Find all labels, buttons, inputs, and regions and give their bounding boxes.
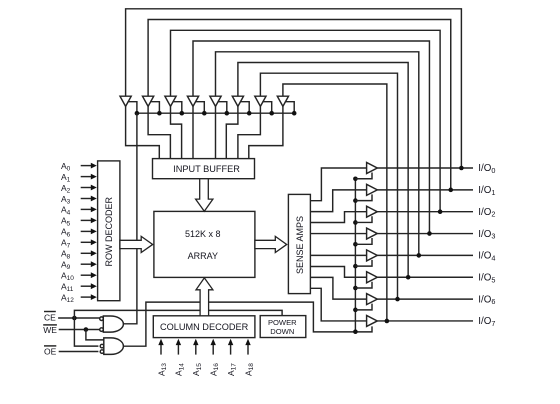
- wire tap triangle 5 to write-enable bus: [218, 102, 227, 114]
- wire loop I/O6 to input buffer triangle 7: [260, 73, 397, 299]
- wire sense amp output 1 to output triangle 1: [310, 168, 366, 201]
- gate G1 (CE/WE write logic): [100, 316, 124, 332]
- address input A4 label and arrow: [61, 205, 97, 217]
- input buffer triangle 4 (I/O3): [187, 96, 198, 106]
- wire tap triangle 1 to write-enable bus: [128, 102, 137, 114]
- wire triangle 5 output to INPUT BUFFER: [215, 106, 217, 158]
- wire sense amp output 5 to output triangle 5: [310, 254, 366, 256]
- svg-text:INPUT BUFFER: INPUT BUFFER: [173, 164, 240, 174]
- WE control wire with overline label: [43, 325, 57, 335]
- junction dot output-enable bus 6: [353, 286, 358, 291]
- junction dot I/O1: [448, 188, 453, 193]
- output triangle 6 (I/O5): [367, 272, 378, 283]
- input buffer triangle 8 (I/O7): [277, 96, 288, 106]
- output triangle 4 (I/O3): [367, 228, 378, 239]
- address input A12 label and arrow: [61, 292, 97, 304]
- address input A0 label and arrow: [61, 161, 97, 173]
- address input A7 label and arrow: [61, 238, 97, 250]
- address input A8 label and arrow: [61, 249, 97, 261]
- address input A2 label and arrow: [61, 183, 97, 195]
- wire tap triangle 4 to write-enable bus: [195, 102, 204, 114]
- OE control wire with overline label: [44, 346, 57, 356]
- wire tap output triangle 5 to output-enable bus: [355, 260, 372, 266]
- output triangle 1 (I/O0): [367, 163, 378, 174]
- CE control wire with overline label: [44, 312, 56, 323]
- wire WE input: [59, 329, 100, 331]
- wire tap output triangle 3 to output-enable bus: [355, 216, 372, 222]
- address input A11 label and arrow: [61, 282, 97, 294]
- address input A6 label and arrow: [61, 227, 97, 239]
- junction dot output-enable bus 4: [353, 242, 358, 247]
- address input A18 label and arrow: [243, 339, 255, 376]
- junction dot output-enable bus 1: [353, 176, 358, 181]
- output triangle 3 (I/O2): [367, 206, 378, 217]
- wire sense amp output 6 to output triangle 6: [310, 267, 366, 278]
- wire CE to gate G2: [74, 318, 98, 346]
- wire loop I/O4 to input buffer triangle 5: [216, 52, 419, 256]
- svg-text:WE: WE: [43, 325, 57, 335]
- wire loop I/O0 to input buffer triangle 1: [126, 9, 462, 168]
- output triangle 5 (I/O4): [367, 250, 378, 261]
- wire tap triangle 2 to write-enable bus: [150, 102, 159, 114]
- wire loop I/O1 to input buffer triangle 2: [148, 20, 451, 190]
- address input A10 label and arrow: [61, 271, 97, 283]
- junction dot I/O0: [459, 166, 464, 171]
- junction dot on write-enable bus 2: [157, 111, 162, 116]
- junction dot I/O5: [406, 275, 411, 280]
- junction dot I/O2: [438, 209, 443, 214]
- block SENSE AMPS: [288, 194, 310, 293]
- block COLUMN DECODER: [153, 316, 255, 338]
- address input A9 label and arrow: [61, 260, 97, 272]
- wire sense amp output 2 to output triangle 2: [310, 190, 366, 212]
- gate G2 (read/output-enable logic): [100, 338, 123, 355]
- wire tap triangle 7 to write-enable bus: [262, 102, 271, 114]
- input buffer triangle 2 (I/O1): [143, 96, 154, 106]
- wire triangle 7 output to INPUT BUFFER: [238, 106, 261, 158]
- input buffer triangle 6 (I/O5): [232, 96, 243, 106]
- junction dot on write-enable bus 8: [292, 111, 297, 116]
- wire tap triangle 3 to write-enable bus: [173, 102, 182, 114]
- wire I/O0 line: [377, 167, 473, 169]
- wire triangle 6 output to INPUT BUFFER: [226, 106, 238, 158]
- wire triangle 1 output to INPUT BUFFER: [126, 106, 160, 158]
- input buffer triangle 5 (I/O4): [210, 96, 221, 106]
- wire I/O6 line: [377, 298, 473, 300]
- wire tap output triangle 6 to output-enable bus: [355, 282, 372, 288]
- output-enable bus: [354, 179, 356, 332]
- svg-text:COLUMN DECODER: COLUMN DECODER: [160, 322, 249, 332]
- wire sense amp output 8 to output triangle 8: [310, 288, 366, 321]
- junction dot output-enable bus 7: [353, 308, 358, 313]
- wire CE to POWER DOWN: [74, 310, 282, 318]
- wire write-enable bus down to gate G1 output: [123, 113, 136, 324]
- wire I/O5 line: [377, 276, 473, 278]
- junction dot I/O4: [417, 253, 422, 258]
- wire I/O7 line: [377, 320, 473, 322]
- write-enable bus under input triangles: [137, 112, 294, 114]
- junction dot I/O7: [385, 319, 390, 324]
- junction dot output-enable bus 5: [353, 264, 358, 269]
- junction dot on write-enable bus 6: [247, 111, 252, 116]
- wire WE to gate G2: [86, 330, 104, 340]
- junction dot on write-enable bus 1: [135, 111, 140, 116]
- junction dot output-enable bus 3: [353, 220, 358, 225]
- wire triangle 4 output to INPUT BUFFER: [192, 106, 194, 158]
- junction dot output-enable bus 2: [353, 198, 358, 203]
- wire triangle 8 output to INPUT BUFFER: [249, 106, 283, 158]
- svg-text:OE: OE: [44, 346, 57, 356]
- wire sense amp output 7 to output triangle 7: [310, 277, 366, 299]
- svg-text:SENSE AMPS: SENSE AMPS: [295, 216, 305, 274]
- address input A15 label and arrow: [191, 339, 203, 376]
- wire sense amp output 4 to output triangle 4: [310, 233, 366, 235]
- wire I/O2 line: [377, 211, 473, 213]
- block INPUT BUFFER: [153, 159, 255, 179]
- wire tap output triangle 2 to output-enable bus: [355, 194, 372, 200]
- wire triangle 2 output to INPUT BUFFER: [148, 106, 170, 158]
- svg-text:POWER: POWER: [268, 318, 297, 327]
- block 512K x 8 ARRAY: [154, 211, 255, 277]
- junction dot on write-enable bus 3: [180, 111, 185, 116]
- junction dot CE: [72, 316, 77, 321]
- address input A5 label and arrow: [61, 216, 97, 228]
- svg-text:DOWN: DOWN: [270, 327, 294, 336]
- wire loop I/O2 to input buffer triangle 3: [171, 30, 441, 211]
- wire CE input: [58, 317, 100, 319]
- wire loop I/O5 to input buffer triangle 6: [238, 63, 408, 278]
- block POWER DOWN: [260, 316, 306, 338]
- output triangle 2 (I/O1): [367, 184, 378, 195]
- svg-text:ROW DECODER: ROW DECODER: [104, 197, 114, 267]
- address input A3 label and arrow: [61, 194, 97, 206]
- svg-text:CE: CE: [44, 312, 56, 322]
- address input A16 label and arrow: [209, 339, 221, 376]
- block arrow ROW DECODER to ARRAY: [120, 236, 153, 252]
- wire tap triangle 6 to write-enable bus: [240, 102, 249, 114]
- wire loop I/O7 to input buffer triangle 8: [283, 84, 387, 321]
- input buffer triangle 3 (I/O2): [165, 96, 176, 106]
- svg-text:512K x 8: 512K x 8: [185, 229, 221, 239]
- output triangle 7 (I/O6): [367, 294, 378, 305]
- junction dot on write-enable bus 5: [225, 111, 230, 116]
- svg-text:ARRAY: ARRAY: [188, 251, 218, 261]
- wire sense amp output 3 to output triangle 3: [310, 212, 366, 223]
- block arrow INPUT BUFFER to ARRAY: [196, 179, 213, 212]
- junction dot output-enable bus 8: [353, 329, 358, 334]
- address input A14 label and arrow: [174, 339, 186, 376]
- wire OE input: [59, 351, 99, 353]
- junction dot I/O3: [427, 231, 432, 236]
- address input A1 label and arrow: [61, 172, 97, 184]
- wire I/O1 line: [377, 189, 473, 191]
- address input A17 label and arrow: [226, 339, 238, 376]
- junction dot on write-enable bus 7: [269, 111, 274, 116]
- output triangle 8 (I/O7): [367, 315, 378, 326]
- wire I/O3 line: [377, 233, 473, 235]
- input buffer triangle 1 (I/O0): [120, 96, 131, 106]
- wire tap output triangle 7 to output-enable bus: [355, 304, 372, 310]
- wire tap triangle 8 to write-enable bus: [285, 102, 294, 114]
- block arrow ARRAY to SENSE AMPS: [255, 236, 287, 252]
- address input A13 label and arrow: [156, 339, 168, 376]
- wire gate G2 output to output-enable bus: [123, 302, 372, 346]
- wire I/O4 line: [377, 254, 473, 256]
- wire tap output triangle 4 to output-enable bus: [355, 238, 372, 244]
- wire triangle 3 output to INPUT BUFFER: [171, 106, 182, 158]
- input buffer triangle 7 (I/O6): [255, 96, 266, 106]
- junction dot I/O6: [395, 297, 400, 302]
- block arrow COLUMN DECODER to ARRAY: [196, 278, 213, 316]
- wire tap output triangle 1 to output-enable bus: [355, 173, 372, 179]
- junction dot WE: [84, 327, 89, 332]
- block ROW DECODER: [98, 161, 120, 301]
- junction dot on write-enable bus 4: [202, 111, 207, 116]
- wire loop I/O3 to input buffer triangle 4: [193, 41, 429, 234]
